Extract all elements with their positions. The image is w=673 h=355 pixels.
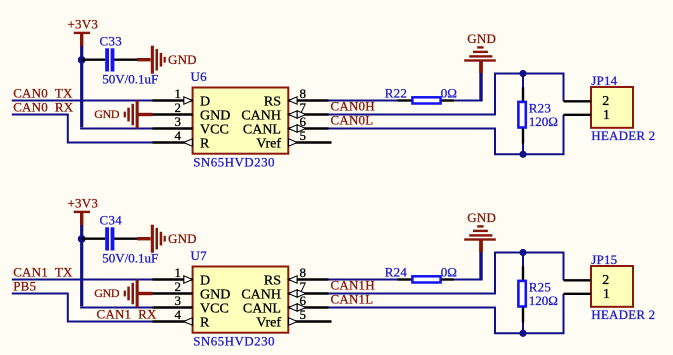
JP15 pin 2 [564,273,610,288]
svg-text:CAN0L: CAN0L [331,113,374,128]
capacitor C34 [82,227,138,250]
svg-text:CAN1 RX: CAN1 RX [97,306,158,321]
wire PB5 stepping down to pin 4 (R) [12,294,153,322]
svg-text:0Ω: 0Ω [441,85,457,100]
U7 pin 7 (CANH) [241,279,328,302]
resistor R22 [398,97,455,103]
svg-text:7: 7 [300,100,307,115]
svg-text:2: 2 [602,94,609,109]
svg-text:GND: GND [94,107,120,121]
svg-text:1: 1 [603,108,610,123]
ground GND (above R24) [464,210,496,252]
svg-text:+3V3: +3V3 [68,17,99,32]
svg-text:CAN1 TX: CAN1 TX [13,264,73,279]
svg-text:1: 1 [175,265,182,280]
U7 pin 5 (Vref) [256,307,331,330]
ground GND (C33) [137,46,197,74]
svg-text:7: 7 [300,279,307,294]
svg-text:1: 1 [175,86,182,101]
svg-text:CAN1H: CAN1H [331,278,375,293]
U7 pin 8 (RS) [264,265,329,288]
junction R25 bottom [519,330,526,337]
svg-text:0Ω: 0Ω [441,264,457,279]
svg-text:GND: GND [200,108,230,123]
op-amp/IC U7 SN65HVD230 body [193,267,289,333]
power +3V3 (U7 supply) [68,196,99,226]
svg-text:PB5: PB5 [13,278,36,293]
svg-text:CANH: CANH [241,287,281,302]
svg-text:50V/0.1uF: 50V/0.1uF [102,250,158,265]
svg-text:CAN0 TX: CAN0 TX [13,85,73,100]
svg-text:50V/0.1uF: 50V/0.1uF [102,71,158,86]
svg-text:GND: GND [200,287,230,302]
wire top rail to R25 [522,253,524,268]
JP15 pin 1 [564,287,610,302]
svg-text:U7: U7 [191,248,208,263]
wire CAN1H (pin 7 to termination / JP15 pin 2) [329,253,564,294]
svg-text:R22: R22 [385,85,407,100]
svg-text:3: 3 [175,293,182,308]
junction +3V3 rail / C33 [78,56,86,64]
svg-text:3: 3 [175,114,182,129]
svg-text:GND: GND [168,231,197,246]
svg-text:GND: GND [467,210,496,225]
U6 pin 2 (GND) [153,100,231,123]
wire CAN0H (pin 7 to termination / JP14 pin 2) [329,74,564,115]
svg-text:D: D [200,94,210,109]
svg-text:C34: C34 [100,213,123,228]
wire RS (pin 8) to R24 [329,279,398,281]
JP14 pin 2 [564,94,610,109]
junction R23 bottom [519,151,526,158]
svg-text:CANH: CANH [241,108,281,123]
wire CAN0&#160;&#160;RX stepping down to pin 4 (R) [12,115,153,143]
svg-text:5: 5 [300,307,307,322]
svg-text:SN65HVD230: SN65HVD230 [193,333,275,348]
svg-text:GND: GND [467,31,496,46]
svg-text:CANL: CANL [243,122,281,137]
svg-text:CANL: CANL [243,301,281,316]
svg-text:6: 6 [300,293,307,308]
U6 pin 8 (RS) [264,86,329,109]
svg-text:+3V3: +3V3 [68,196,99,211]
resistor R23 (120 ohm termination) [518,87,525,143]
svg-text:8: 8 [300,86,307,101]
svg-text:2: 2 [175,279,182,294]
svg-text:Vref: Vref [256,136,281,151]
wire CAN0&#160;&#160;TX to pin 1 (D) [12,100,153,102]
svg-text:2: 2 [602,273,609,288]
ground GND (above R22) [464,31,496,73]
svg-text:HEADER 2: HEADER 2 [591,307,655,322]
svg-text:120Ω: 120Ω [529,114,558,129]
wire top rail to R23 [522,74,524,89]
U7 pin 2 (GND) [153,279,231,302]
wire CAN1&#160;&#160;TX to pin 1 (D) [12,279,153,281]
svg-text:VCC: VCC [200,122,229,137]
wire R25 to bottom rail [522,322,524,334]
svg-text:R: R [200,315,210,330]
wire R24 up to GND [454,279,482,281]
wire R23 to bottom rail [522,143,524,155]
svg-text:4: 4 [175,128,182,143]
U6 pin 5 (Vref) [256,128,331,151]
U7 pin 6 (CANL) [243,293,329,316]
junction R25 top [519,249,526,256]
resistor R24 [398,276,455,282]
U6 pin 3 (VCC) [153,114,229,137]
wire RS (pin 8) to R22 [329,100,398,102]
resistor R25 (120 ohm termination) [518,266,525,322]
svg-text:120Ω: 120Ω [529,293,558,308]
U7 pin 1 (D) [153,265,211,288]
svg-text:8: 8 [300,265,307,280]
svg-text:SN65HVD230: SN65HVD230 [193,154,275,169]
svg-text:R24: R24 [385,264,408,279]
svg-text:VCC: VCC [200,301,229,316]
svg-text:GND: GND [94,286,120,300]
capacitor C33 [82,48,138,71]
header JP14 body [591,87,633,128]
U7 pin 3 (VCC) [153,293,229,316]
svg-text:4: 4 [175,307,182,322]
JP14 pin 1 [564,108,610,123]
svg-text:6: 6 [300,114,307,129]
ground GND (C34) [137,225,197,253]
power +3V3 (U6 supply) [68,17,99,47]
svg-text:D: D [200,273,210,288]
svg-text:JP15: JP15 [591,252,617,267]
ground GND (U7 pin 2) [94,280,152,308]
U6 pin 1 (D) [153,86,211,109]
junction +3V3 rail / C34 [78,235,86,243]
svg-text:C33: C33 [100,34,123,49]
svg-text:CAN1L: CAN1L [331,292,374,307]
U6 pin 4 (R) [153,128,211,151]
wire CAN0L (pin 6 to termination / JP14 pin 1) [329,115,564,155]
svg-text:1: 1 [603,287,610,302]
svg-text:Vref: Vref [256,315,281,330]
U7 pin 4 (R) [153,307,211,330]
svg-text:CAN0H: CAN0H [331,99,375,114]
svg-text:CAN0 RX: CAN0 RX [13,99,74,114]
svg-text:R: R [200,136,210,151]
svg-text:HEADER 2: HEADER 2 [591,128,655,143]
header JP15 body [591,266,633,307]
svg-text:JP14: JP14 [591,73,617,88]
svg-text:5: 5 [300,128,307,143]
op-amp/IC U6 SN65HVD230 body [193,88,289,154]
svg-text:U6: U6 [191,69,208,84]
svg-text:RS: RS [264,273,281,288]
svg-text:GND: GND [168,52,197,67]
junction R23 top [519,70,526,77]
wire CAN1L (pin 6 to termination / JP15 pin 1) [329,294,564,334]
svg-text:RS: RS [264,94,281,109]
ground GND (U6 pin 2) [94,101,152,129]
wire R22 up to GND [454,100,482,102]
U6 pin 7 (CANH) [241,100,328,123]
svg-text:2: 2 [175,100,182,115]
U6 pin 6 (CANL) [243,114,329,137]
wire +3V3 rail down to VCC (pin 3) [80,46,83,127]
wire +3V3 rail down to VCC (pin 3) [80,225,83,306]
